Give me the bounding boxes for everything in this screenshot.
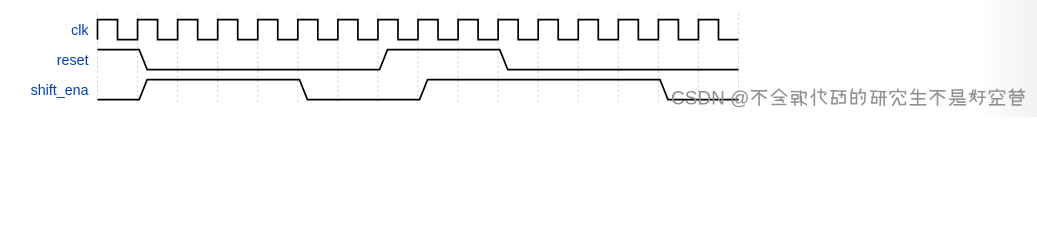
signal reset waveform: [98, 50, 739, 70]
signal shift_ena waveform: [98, 80, 739, 100]
watermark CJK-style glyph strokes: [752, 89, 1025, 105]
grid (dashed vertical period boundaries): [98, 13, 739, 103]
svg-text:shift_ena: shift_ena: [31, 83, 89, 99]
right edge fade: [977, 0, 1037, 117]
svg-text:CSDN @: CSDN @: [671, 88, 749, 109]
svg-text:reset: reset: [57, 53, 89, 69]
signal clk waveform (16 cycles): [98, 20, 739, 40]
svg-text:clk: clk: [71, 23, 89, 39]
